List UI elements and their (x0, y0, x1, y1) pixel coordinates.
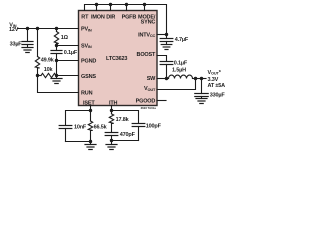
wire ISET stub down from IC (90, 106, 92, 111)
svg-text:LTC3623: LTC3623 (106, 56, 127, 62)
capacitor C5 330uF output cap (195, 79, 208, 99)
node junction PGND (55, 59, 58, 62)
capacitor C2 0.1uF SVIN filter (51, 46, 62, 61)
node junction SVIN (55, 44, 58, 47)
wire MODE/SYNC stub (144, 5, 146, 11)
wire RUN connection from divider (38, 76, 79, 93)
wire ISET to 10nF branch (66, 111, 91, 126)
svg-text:0.1µF: 0.1µF (174, 61, 188, 67)
wire PGND to IC (57, 60, 79, 62)
resistor R1 49.9k (35, 29, 39, 76)
svg-text:PVIN: PVIN (81, 27, 92, 33)
node junction MODE/SYNC on top rail (143, 3, 146, 6)
wire ITH to 100pF branch (112, 111, 139, 124)
svg-text:GSNS: GSNS (81, 74, 96, 80)
node junction IMON on top rail (95, 3, 98, 6)
ground below GSNS node (51, 76, 62, 84)
node junction ITH ground (110, 139, 113, 142)
capacitor C4 0.1uF boost (160, 62, 173, 79)
svg-text:100pF: 100pF (146, 123, 162, 129)
node junction output cap branch (200, 77, 203, 80)
resistor R5 17.8k compensation (109, 111, 113, 133)
wire ITH network bottom (112, 140, 139, 142)
wire SW to inductor (157, 78, 169, 80)
ground below ISET network (85, 142, 96, 150)
wire PGOOD stub (157, 100, 166, 102)
node junction ITH (110, 109, 113, 112)
node junction GSNS ground node (55, 74, 58, 77)
svg-text:33µF: 33µF (10, 41, 23, 47)
svg-text:VOUT: VOUT (144, 86, 156, 92)
resistor R4 66.5k on ISET (88, 111, 92, 142)
node junction INTVCC (165, 33, 168, 36)
node junction ISET (89, 109, 92, 112)
svg-text:AT ±5A: AT ±5A (208, 83, 226, 89)
svg-text:49.9k: 49.9k (41, 58, 55, 64)
resistor R3 1 ohm (54, 29, 58, 46)
wire IMON stub (96, 5, 98, 11)
svg-text:DIR: DIR (106, 14, 115, 20)
svg-text:ITH: ITH (109, 101, 118, 107)
wire DIR stub (110, 5, 112, 11)
svg-text:ISET: ISET (83, 101, 95, 107)
svg-text:17.8k: 17.8k (116, 117, 130, 123)
wire inductor to output (193, 78, 207, 80)
wire PGFB stub (126, 5, 128, 11)
svg-text:BOOST: BOOST (137, 52, 156, 58)
wire GSNS to IC (57, 75, 79, 77)
capacitor C1 33uF input cap (22, 29, 33, 48)
svg-text:10nF: 10nF (74, 124, 87, 130)
svg-text:INTVCC: INTVCC (138, 32, 155, 38)
svg-text:3623 TA01a: 3623 TA01a (141, 106, 157, 110)
node junction 49.9k/10k/RUN divider midpoint (36, 74, 39, 77)
wire VIN rail to PVIN (18, 28, 79, 30)
node junction 33uF branch (26, 27, 29, 30)
svg-text:3.3V: 3.3V (208, 77, 219, 83)
wire ISET network bottom (66, 141, 91, 143)
svg-text:4.7µF: 4.7µF (175, 37, 189, 43)
svg-text:330µF: 330µF (210, 93, 226, 99)
svg-text:PGND: PGND (81, 59, 96, 65)
svg-text:PGOOD: PGOOD (136, 98, 156, 104)
node junction 49.9k branch (36, 27, 39, 30)
svg-text:SYNC: SYNC (141, 20, 156, 26)
svg-text:RUN: RUN (81, 90, 93, 96)
capacitor C6 10nF on ISET (59, 126, 72, 142)
op-amp U1 LTC3623 IC body (79, 11, 158, 106)
svg-text:0.1µF: 0.1µF (64, 50, 78, 56)
svg-text:470pF: 470pF (120, 132, 136, 138)
wire PGND node down to ground node (56, 61, 58, 76)
resistor R2 10k horizontal (38, 73, 57, 77)
capacitor C3 4.7uF INTVCC bypass (160, 39, 173, 45)
svg-text:RT: RT (81, 14, 89, 20)
capacitor C7 470pF compensation (105, 133, 118, 141)
svg-text:66.5k: 66.5k (94, 124, 108, 130)
svg-text:IMON: IMON (91, 14, 105, 20)
wire top rail tying RT IMON DIR PGFB MODE/SYNC to INTVCC (85, 5, 167, 39)
svg-text:SVIN: SVIN (81, 43, 92, 49)
inductor L1 1.5uH (169, 75, 193, 78)
node junction SW boost cap (165, 77, 168, 80)
svg-text:VOUT*: VOUT* (208, 70, 222, 76)
wire BOOST to boost cap (157, 56, 167, 62)
svg-text:1Ω: 1Ω (61, 35, 69, 41)
ground below 4.7uF (161, 45, 172, 50)
wire SVIN to IC (57, 45, 79, 47)
capacitor C8 100pF (132, 124, 145, 141)
svg-text:12V: 12V (9, 27, 19, 33)
svg-text:1.5µH: 1.5µH (172, 68, 186, 74)
node junction VOUT sense (194, 77, 197, 80)
svg-text:SW: SW (147, 76, 156, 82)
ground below ITH network (106, 141, 117, 150)
svg-text:PGFB: PGFB (122, 14, 137, 20)
node junction 1ohm branch (55, 27, 58, 30)
node junction DIR on top rail (109, 3, 112, 6)
wire ITH stub down from IC (111, 106, 113, 111)
node junction PGFB on top rail (125, 3, 128, 6)
node junction ISET ground (89, 140, 92, 143)
wire INTVCC to top rail (157, 34, 167, 36)
svg-text:10k: 10k (44, 67, 54, 73)
wire VOUT pin to output node (157, 79, 196, 90)
ground below 33uF (22, 48, 33, 53)
ground below 330uF (196, 99, 207, 104)
